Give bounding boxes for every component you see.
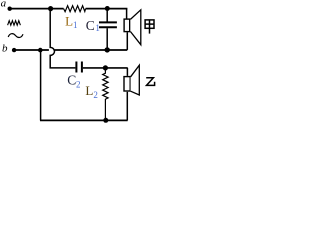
wire left branch down: [40, 50, 42, 120]
speaker B bottom lead: [126, 92, 128, 121]
node b terminal dot: [12, 48, 16, 52]
speaker B horn: [131, 65, 140, 95]
inductor L2: [103, 68, 108, 121]
svg-text:L: L: [85, 83, 93, 98]
speaker A driver rectangle: [124, 19, 130, 32]
node junction on b rail (left branch): [38, 48, 43, 53]
capacitor C1 plates: [99, 21, 117, 23]
inductor L1: [64, 6, 86, 12]
speaker A bottom lead: [126, 32, 128, 50]
svg-text:1: 1: [95, 23, 100, 33]
svg-text:2: 2: [93, 90, 98, 100]
label jia (speaker A): [145, 20, 154, 34]
capacitor C1 bottom lead: [106, 28, 108, 50]
wire top rail left: [10, 8, 64, 10]
source AC tilde: [8, 34, 23, 38]
source internal resistance zigzag: [8, 21, 21, 26]
svg-text:b: b: [2, 43, 8, 55]
svg-text:C: C: [67, 73, 76, 88]
capacitor C1 top lead: [106, 9, 108, 22]
node a terminal dot: [8, 7, 12, 11]
label yi (speaker B): [146, 78, 154, 86]
wire bottom rail: [40, 119, 128, 121]
wire b rail left segment: [14, 49, 49, 51]
speaker A top lead: [126, 9, 128, 19]
svg-text:L: L: [65, 13, 73, 28]
node junction C1 bottom: [105, 47, 110, 52]
capacitor C2 plates: [75, 62, 77, 73]
svg-text:2: 2: [76, 80, 81, 90]
node junction L2 top: [103, 65, 108, 70]
speaker B driver rectangle: [124, 77, 130, 91]
svg-text:1: 1: [73, 20, 78, 30]
node junction L2 bottom: [103, 118, 108, 123]
node junction J2 (C1 top): [105, 6, 110, 11]
node junction J1: [48, 6, 53, 11]
wire b rail right segment: [55, 49, 128, 51]
wire top rail right: [86, 8, 128, 10]
speaker A horn: [130, 10, 140, 45]
speaker B top lead: [126, 68, 128, 76]
svg-text:C: C: [86, 18, 95, 33]
wire hop branch from J1 down across b-rail: [50, 9, 75, 68]
wire C2 row right of plates: [83, 67, 128, 69]
svg-text:a: a: [1, 0, 7, 10]
